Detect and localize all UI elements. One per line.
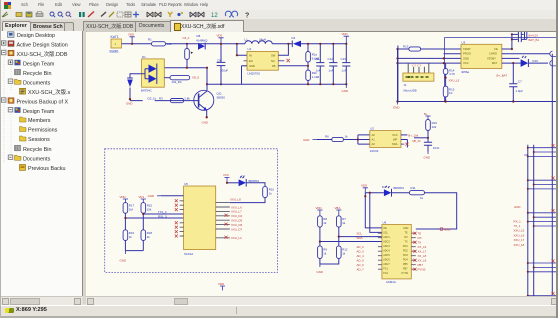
inductor L1 — [245, 38, 273, 44]
svg-text:NC: NC — [271, 59, 275, 63]
svg-text:PD2: PD2 — [403, 250, 408, 253]
resistor R1 — [148, 38, 172, 46]
row1 Design Desktop — [8, 32, 15, 38]
svg-text:C12: C12 — [328, 57, 334, 61]
svg-text:Documents: Documents — [23, 156, 51, 162]
svg-text:A0: A0 — [372, 133, 376, 137]
wire collector feed — [164, 68, 207, 91]
net label GND arrow — [303, 138, 317, 142]
node dots rail — [396, 100, 398, 102]
dashed section box — [105, 149, 278, 273]
capacitor C5 — [517, 32, 524, 37]
svg-text:1k: 1k — [269, 192, 273, 196]
svg-text:VCC: VCC — [392, 133, 398, 137]
stub cluster 5 — [527, 292, 558, 300]
svg-text:VD_5: VD_5 — [192, 75, 200, 79]
LED D7 — [239, 175, 260, 187]
row9 Design Team — [8, 108, 12, 112]
svg-text:PD1: PD1 — [403, 245, 408, 248]
power port VDD below box — [218, 282, 225, 291]
svg-text:1M: 1M — [129, 208, 134, 212]
svg-text:AD_4: AD_4 — [357, 254, 365, 258]
row13 Recycle Bin — [15, 145, 21, 151]
row11 Permissions — [20, 127, 27, 132]
svg-text:SCL: SCL — [357, 232, 363, 236]
svg-text:ADC5: ADC5 — [383, 254, 390, 257]
svg-text:105uF: 105uF — [220, 68, 228, 72]
svg-text:BAT: BAT — [492, 61, 497, 65]
svg-text:XXU_D6: XXU_D6 — [231, 223, 243, 227]
svg-text:Y Y Y Y: Y Y Y Y — [412, 64, 422, 68]
svg-text:XXU_D7: XXU_D7 — [231, 227, 243, 231]
svg-text:B+_BAT: B+_BAT — [497, 74, 508, 78]
svg-text:EN: EN — [249, 59, 253, 63]
svg-text:U2: U2 — [370, 127, 374, 131]
svg-text:Sessions: Sessions — [28, 137, 50, 143]
svg-text:SC61A: SC61A — [184, 252, 193, 256]
left net labels mcu — [357, 232, 365, 272]
svg-text:Permissions: Permissions — [28, 128, 58, 134]
microphone/switch S1 — [127, 78, 133, 99]
svg-text:10nF: 10nF — [433, 146, 440, 150]
svg-text:RX: RX — [418, 236, 422, 240]
svg-text:VD5: VD5 — [217, 34, 223, 38]
capacitor C13 — [341, 44, 351, 84]
svg-text:RX1_5: RX1_5 — [158, 214, 167, 218]
resistor R1a — [306, 52, 319, 63]
svg-text:AD_7: AD_7 — [357, 268, 365, 272]
wire col taps to U6 — [320, 227, 382, 241]
micro usb pins — [408, 63, 429, 73]
right net labels mcu — [418, 232, 427, 272]
svg-text:1k: 1k — [323, 251, 327, 255]
svg-text:XXU_L8: XXU_L8 — [230, 198, 241, 202]
row14 Documents — [8, 155, 12, 159]
node dots border — [443, 57, 445, 59]
main hscroll — [86, 296, 558, 305]
svg-text:Design Desktop: Design Desktop — [17, 33, 55, 39]
power ground B block — [424, 152, 430, 160]
svg-text:AD_5: AD_5 — [357, 259, 365, 263]
resistor R19 — [426, 120, 438, 131]
wire BAT down to C7 — [512, 63, 514, 101]
svg-text:BatB1: BatB1 — [110, 50, 119, 54]
row5 Recycle Bin — [15, 69, 21, 75]
svg-text:Recycle Bin: Recycle Bin — [23, 71, 51, 77]
svg-text:GND: GND — [393, 105, 399, 109]
capacitor C9 — [217, 44, 229, 84]
svg-text:U3: U3 — [462, 40, 466, 44]
svg-text:TE: TE — [405, 232, 408, 235]
op IC U1 LM2575 — [244, 47, 279, 75]
svg-text:GND: GND — [148, 194, 154, 198]
svg-text:XXU_L2: XXU_L2 — [231, 236, 242, 240]
svg-text:GND: GND — [202, 121, 208, 125]
resistor R12 — [337, 246, 348, 259]
svg-text:Design Team: Design Team — [23, 109, 55, 115]
left pin stubs — [180, 201, 184, 236]
resistor R6 — [325, 135, 348, 142]
wire R2 to node — [186, 44, 188, 68]
resistor R13 — [403, 45, 421, 52]
svg-text:VCC: VCC — [463, 61, 469, 65]
wire rail VDD top — [122, 43, 246, 45]
svg-text:4.7K: 4.7K — [449, 72, 455, 76]
svg-text:R1: R1 — [148, 38, 152, 42]
svg-text:TE: TE — [418, 232, 422, 236]
wire FB — [278, 65, 308, 67]
wire cap feeds — [512, 34, 517, 39]
diode D2 — [292, 36, 302, 47]
node dot — [287, 43, 289, 45]
wire divider — [307, 44, 309, 84]
svg-text:DZ_1k: DZ_1k — [148, 96, 157, 100]
red X left pins — [175, 199, 178, 237]
net label GND feed — [148, 194, 161, 198]
svg-text:GND: GND — [120, 259, 126, 263]
right pin wires + labels — [216, 203, 243, 241]
status bar — [0, 305, 558, 317]
svg-text:C8_4: C8_4 — [183, 36, 190, 40]
charger IC U3 TP4056 — [461, 40, 502, 73]
svg-text:1.1kB: 1.1kB — [312, 75, 319, 79]
svg-text:GND: GND — [126, 102, 132, 106]
resistor R10 — [263, 186, 275, 197]
node dot — [186, 43, 188, 45]
LED D4 — [382, 185, 404, 196]
wire VCC pin right — [401, 134, 408, 136]
node dots left — [396, 48, 398, 50]
wire VCC to LED — [227, 182, 239, 184]
svg-text:PYNS: PYNS — [402, 272, 409, 275]
driver IC U5 — [184, 182, 216, 256]
red X SDA — [401, 143, 409, 146]
svg-text:PD3: PD3 — [403, 254, 408, 257]
wire R19 to cap — [427, 131, 429, 152]
svg-text:1k: 1k — [147, 235, 151, 239]
svg-text:B+4.2V: B+4.2V — [529, 33, 539, 37]
wire BAT row right — [502, 62, 548, 64]
svg-text:1k: 1k — [129, 235, 133, 239]
svg-text:1nF: 1nF — [342, 69, 347, 73]
svg-text:A1: A1 — [372, 138, 376, 142]
svg-text:Recycle Bin: Recycle Bin — [23, 147, 51, 153]
svg-text:GND: GND — [463, 56, 469, 60]
svg-text:XXU_16: XXU_16 — [514, 233, 525, 237]
svg-text:ADC1: ADC1 — [383, 236, 390, 239]
svg-text:STDBY: STDBY — [487, 56, 496, 60]
row7 selected sch doc — [20, 88, 26, 94]
svg-text:Documents: Documents — [23, 80, 51, 86]
svg-text:PROG: PROG — [463, 52, 471, 56]
svg-text:PYNS: PYNS — [418, 268, 426, 272]
svg-text:U1: U1 — [248, 47, 252, 51]
transistor Q11 S8050 — [194, 90, 225, 117]
wire STDBY row right — [502, 57, 520, 59]
svg-text:B+_10k: B+_10k — [408, 133, 418, 137]
node dots C9 — [220, 43, 222, 45]
left vertical wire — [397, 49, 399, 102]
right net label stack — [514, 219, 525, 247]
capacitor C14 — [424, 142, 440, 150]
wire VDD to LED + down — [365, 193, 384, 228]
svg-text:10k: 10k — [167, 42, 172, 46]
capacitor C6 — [517, 31, 527, 42]
power port VCC led — [223, 173, 230, 183]
wire bottom rail — [398, 101, 558, 103]
wire colA down — [124, 218, 126, 251]
wire rail after L1 — [272, 43, 346, 45]
svg-text:KaT1: KaT1 — [111, 35, 119, 39]
svg-text:RX_1: RX_1 — [514, 219, 522, 223]
svg-text:S8050: S8050 — [217, 96, 226, 100]
svg-text:SW: SW — [271, 53, 276, 57]
row12 Sessions — [20, 136, 27, 141]
wire box left to mic — [130, 74, 142, 78]
connector BT1 — [111, 39, 122, 48]
wire second drop — [370, 193, 382, 233]
svg-text:Active Design Station: Active Design Station — [17, 42, 68, 48]
svg-text:XXU-SCH_次版.DDB: XXU-SCH_次版.DDB — [17, 50, 68, 58]
svg-text:BAT54C: BAT54C — [141, 89, 152, 93]
svg-text:A2: A2 — [372, 142, 376, 146]
row6 Documents — [8, 79, 12, 83]
svg-text:Previous Backu: Previous Backu — [28, 166, 65, 172]
left panel hscroll — [1, 296, 82, 305]
row8 Previous Backup — [2, 98, 6, 102]
svg-text:10k: 10k — [147, 208, 152, 212]
svg-text:U5: U5 — [184, 182, 188, 186]
document tabs — [83, 21, 136, 32]
wire VCC row — [398, 62, 462, 64]
node + net label VB — [427, 137, 429, 139]
svg-text:1k: 1k — [345, 135, 349, 139]
row10 Members — [20, 117, 27, 122]
wire gnd feed to U5 — [161, 195, 184, 197]
offpage connector 1 — [550, 51, 558, 56]
row3 DDB — [2, 50, 6, 54]
dual diode D1 BAT54C — [141, 55, 164, 93]
resistor R17 — [123, 203, 134, 214]
svg-text:XX_L9: XX_L9 — [418, 259, 427, 263]
svg-text:1nF: 1nF — [316, 69, 321, 73]
power port B+ — [424, 112, 431, 120]
svg-text:GND: GND — [342, 89, 348, 93]
svg-text:GND: GND — [424, 156, 430, 160]
schematic area placeholder — [86, 32, 558, 296]
svg-text:TEMP: TEMP — [463, 47, 471, 51]
svg-text:SDA: SDA — [392, 142, 398, 146]
svg-text:VBA: VBA — [335, 206, 341, 210]
svg-text:C9: C9 — [217, 59, 221, 63]
svg-text:1k: 1k — [420, 196, 424, 200]
mcu U6 — [382, 221, 411, 285]
power port VD5 — [217, 34, 224, 44]
svg-text:GND: GND — [403, 227, 409, 230]
power port VDD right — [342, 32, 350, 45]
wire LED to R10 — [246, 183, 265, 187]
svg-text:XX_L8: XX_L8 — [418, 254, 427, 258]
svg-text:VDD: VDD — [316, 206, 322, 210]
wire CHRG row right — [502, 53, 550, 55]
svg-text:BAT_B1: BAT_B1 — [529, 38, 540, 42]
svg-text:AD_2: AD_2 — [357, 245, 365, 249]
power ground mcu — [317, 264, 323, 274]
svg-text:GND: GND — [317, 270, 323, 274]
svg-text:D2: D2 — [292, 36, 296, 40]
resistor R11 — [409, 186, 424, 200]
svg-text:Design Team: Design Team — [23, 61, 55, 67]
capacitor C12 — [328, 44, 338, 84]
svg-text:MicroUSB: MicroUSB — [404, 89, 417, 93]
svg-text:D1: D1 — [142, 55, 146, 59]
svg-text:AD_6: AD_6 — [357, 263, 365, 267]
svg-text:4056a: 4056a — [461, 70, 469, 74]
svg-text:VDD: VDD — [342, 32, 348, 36]
power port VBA res block — [335, 206, 342, 216]
svg-text:ADC4: ADC4 — [383, 250, 390, 253]
wire GND row — [398, 57, 462, 59]
wire CE up — [502, 34, 512, 49]
wire colA tap — [125, 213, 183, 218]
power port VDD colA — [120, 195, 129, 203]
svg-text:R3: R3 — [159, 96, 163, 100]
power port VDD — [128, 33, 135, 44]
svg-text:C7: C7 — [518, 80, 522, 84]
svg-text:1k: 1k — [342, 251, 346, 255]
left tree panel — [0, 31, 83, 296]
resistor R8 — [318, 216, 328, 227]
svg-text:C13: C13 — [341, 57, 347, 61]
bus vertical wires — [528, 145, 534, 296]
wire GND drop — [397, 46, 399, 102]
power port VDD res block — [316, 206, 323, 216]
svg-text:D7: D7 — [242, 175, 246, 179]
svg-text:FB: FB — [272, 64, 276, 68]
svg-text:IN: IN — [249, 53, 252, 57]
svg-text:CHRG: CHRG — [489, 52, 497, 56]
svg-text:ADC3: ADC3 — [383, 245, 390, 248]
wire U1 GND down — [242, 66, 248, 84]
svg-text:PB5: PB5 — [403, 263, 408, 266]
stub cluster 4 — [527, 260, 558, 273]
svg-text:OE: OE — [383, 227, 387, 230]
svg-text:ADC7: ADC7 — [383, 263, 390, 266]
svg-text:1k: 1k — [323, 221, 327, 225]
wire to U2 pins — [343, 135, 369, 144]
svg-text:1K: 1K — [449, 91, 453, 95]
svg-text:VDD: VDD — [128, 33, 134, 37]
row15 Previous Backup doc — [20, 165, 26, 171]
node dots — [124, 217, 126, 219]
svg-text:SDA: SDA — [357, 236, 363, 240]
resistor R7 — [337, 216, 347, 227]
node dot — [357, 138, 359, 140]
svg-text:XX_L6: XX_L6 — [418, 245, 427, 249]
svg-text:PC2: PC2 — [383, 272, 388, 275]
svg-text:U6: U6 — [383, 221, 387, 225]
stub cluster 2 — [527, 177, 558, 190]
node dot — [206, 116, 208, 118]
node + net label — [445, 77, 447, 79]
wire colB down — [142, 214, 144, 251]
wire U1 IN feed — [237, 44, 247, 55]
svg-text:Previous Backup of X: Previous Backup of X — [17, 99, 69, 105]
svg-text:C11: C11 — [315, 57, 320, 61]
LED D3 — [521, 56, 529, 67]
section border rect — [445, 38, 558, 102]
svg-text:PB7: PB7 — [418, 263, 424, 267]
svg-text:GND: GND — [303, 138, 309, 142]
svg-text:R16: R16 — [533, 59, 539, 63]
row4 Design Team — [8, 60, 12, 64]
node dot — [129, 98, 131, 100]
resistor R2 vertical — [185, 49, 194, 60]
svg-text:VD1: VD1 — [139, 195, 145, 199]
resistor R3 base — [148, 96, 191, 102]
svg-text:R11: R11 — [411, 186, 416, 190]
net label GND ring — [440, 228, 450, 232]
wire PROG row — [444, 53, 462, 55]
node dot — [364, 195, 366, 197]
node dot BAT — [512, 62, 514, 64]
svg-text:XXU_L6: XXU_L6 — [231, 205, 242, 209]
node dots — [307, 43, 309, 45]
svg-text:XXU_D5: XXU_D5 — [231, 219, 243, 223]
power ground GND — [342, 84, 348, 93]
svg-text:XXU_L5: XXU_L5 — [449, 79, 460, 83]
svg-text:GND: GND — [249, 64, 255, 68]
svg-text:Members: Members — [28, 118, 51, 124]
wire res bottoms to gnd — [320, 237, 339, 264]
svg-text:TX: TX — [405, 241, 408, 244]
node dots — [319, 240, 321, 242]
wire SW up — [278, 44, 288, 55]
resistor R16b — [123, 230, 134, 241]
wire LED to R11 — [392, 192, 410, 194]
tab row — [0, 19, 558, 32]
svg-text:D8: D8 — [197, 34, 201, 38]
wire base — [130, 100, 195, 102]
resistor R9 — [318, 246, 328, 259]
resistor R15b — [141, 203, 152, 214]
svg-text:RX: RX — [405, 236, 409, 239]
svg-text:R6: R6 — [325, 135, 329, 139]
node dot — [186, 67, 188, 69]
svg-text:R13: R13 — [403, 45, 409, 49]
node dots — [236, 43, 238, 45]
eeprom U2 24C02 — [370, 127, 401, 153]
capacitor C7 — [509, 80, 523, 93]
svg-text:ADC2: ADC2 — [383, 241, 390, 244]
power port VDD mcu — [361, 184, 368, 193]
svg-text:TX: TX — [418, 241, 422, 245]
connector J1 MicroUSB — [403, 73, 434, 93]
svg-text:AD_3: AD_3 — [357, 250, 365, 254]
rail bottom GND — [207, 83, 346, 85]
node dot — [131, 43, 133, 45]
svg-text:ADC6: ADC6 — [383, 259, 390, 262]
red X marks mcu right pins — [414, 232, 417, 271]
resistor R18 — [141, 230, 152, 241]
svg-text:VDD: VDD — [361, 184, 367, 188]
svg-text:BR0801: BR0801 — [394, 186, 405, 190]
svg-text:1nF: 1nF — [329, 69, 334, 73]
svg-text:10k: 10k — [432, 125, 437, 129]
left pin stubs mcu — [378, 233, 382, 269]
right edge vertical wire — [551, 54, 553, 295]
wire to R6 — [317, 139, 332, 141]
